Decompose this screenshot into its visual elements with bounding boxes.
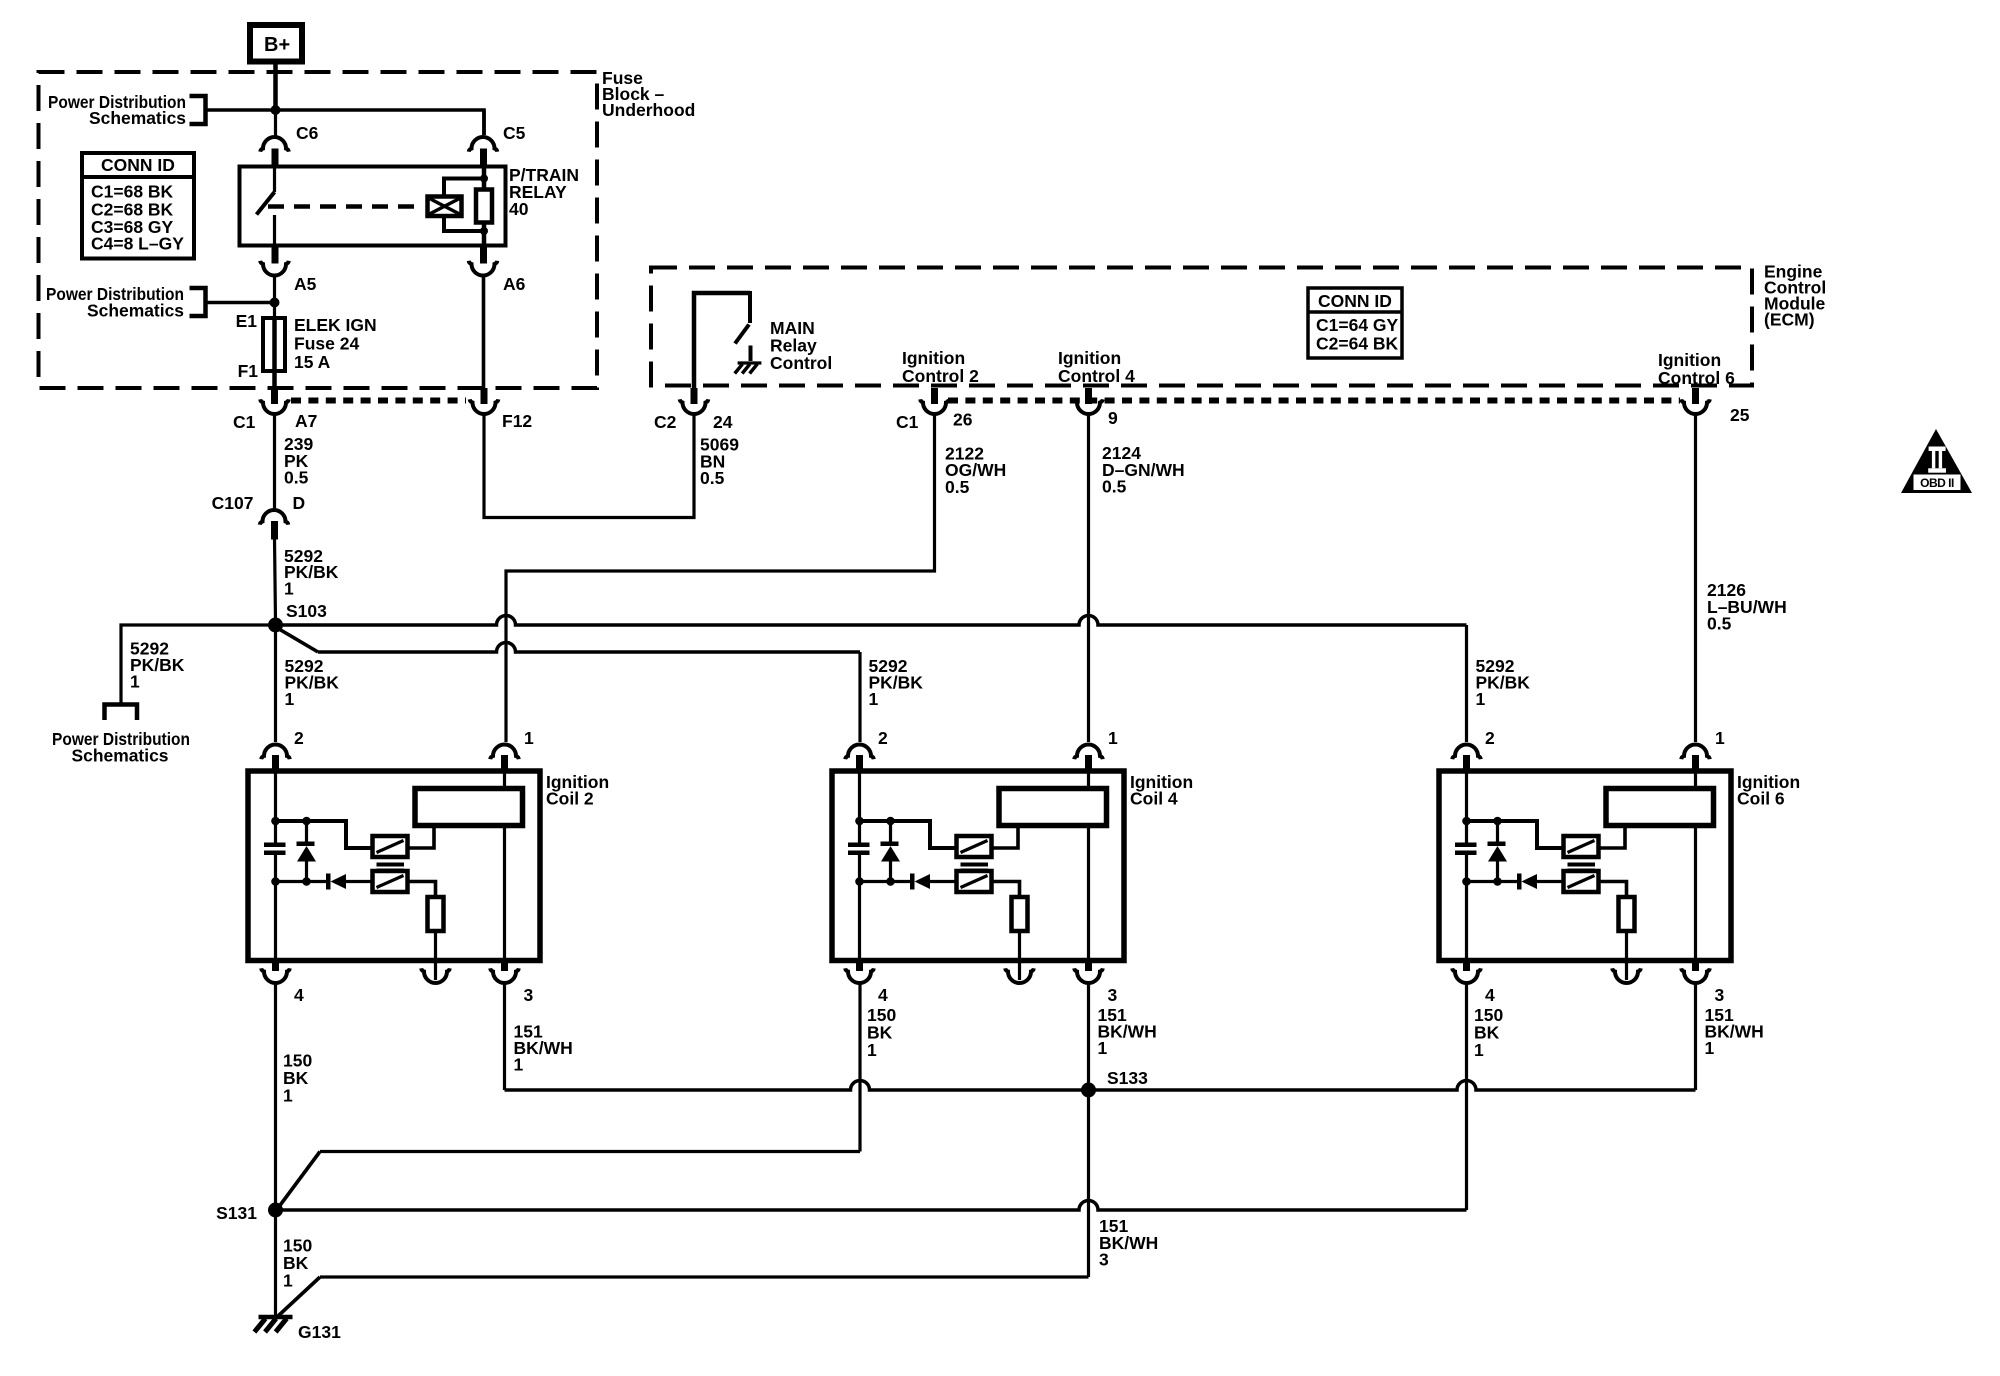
Engine Control Module (ECM) dashed boundary [651, 268, 1752, 386]
svg-text:C1: C1 [233, 412, 256, 432]
coil 4 transformer core [961, 863, 989, 867]
coil 2 internal feed to driver [276, 821, 373, 848]
svg-text:ELEK IGN: ELEK IGN [294, 315, 377, 335]
coil 2 ground wire inside (pin 4) [274, 882, 277, 961]
svg-text:9: 9 [1108, 408, 1118, 428]
svg-text:S131: S131 [216, 1203, 257, 1223]
svg-text:24: 24 [713, 412, 733, 432]
svg-text:1: 1 [284, 579, 294, 599]
svg-text:26: 26 [953, 410, 973, 430]
ECM internal driver: main relay control switch [694, 293, 750, 401]
splice S103 [268, 618, 283, 633]
ignition coil 6 connector pin 1 [1681, 745, 1710, 760]
wire fuse to connector C1 [272, 371, 277, 388]
wire S133 to ground junction (151 BK/WH 3) [1087, 1090, 1090, 1277]
coil 4 secondary to resistor wire [992, 882, 1020, 898]
svg-text:2: 2 [1485, 728, 1495, 748]
svg-text:1: 1 [524, 728, 534, 748]
relay coil (crossed box) [428, 197, 462, 217]
ECM bottom connector row dotted line [948, 398, 1680, 404]
coil 4 primary feed wire (pin 2) [858, 771, 861, 821]
coil 4 output to pin 3 wire [1087, 826, 1090, 961]
ignition coil 6 connector pin 4 [1463, 961, 1470, 972]
splice S133 [1081, 1083, 1096, 1098]
svg-text:C107: C107 [212, 493, 254, 513]
ignition coil 4 module outline [832, 771, 1124, 961]
ignition coil 4 connector pin 1 [1074, 745, 1103, 760]
coil 6 control input wire (pin 1) [1694, 771, 1697, 789]
coil 2 noise capacitor [274, 821, 277, 843]
wire B+ feed into fuse block [273, 62, 278, 113]
svg-text:S103: S103 [286, 601, 327, 621]
svg-text:F12: F12 [502, 411, 532, 431]
svg-text:Ignition: Ignition [1658, 350, 1721, 370]
svg-text:4: 4 [294, 985, 304, 1005]
svg-text:0.5: 0.5 [700, 468, 725, 488]
svg-text:C1: C1 [896, 412, 919, 432]
svg-text:Control: Control [770, 353, 832, 373]
ignition coil 2 connector pin 2 [261, 745, 290, 760]
off-page bracket Power Distribution Schematics (S103) [105, 705, 138, 721]
relay coil feed wire from C5 [482, 167, 487, 191]
coil 4 noise capacitor [858, 821, 861, 843]
svg-text:(ECM): (ECM) [1764, 310, 1815, 330]
coil 4 zener clamp diode [889, 821, 892, 842]
svg-text:Coil 6: Coil 6 [1737, 789, 1785, 809]
connector pin 25 (ignition control 6) [1692, 388, 1699, 404]
ignition coil 4 connector pin 2 [845, 745, 874, 760]
wire 2122 OG/WH 0.5 from pin 26 to coil 2 pin 1 [506, 414, 935, 743]
coil 2 resistor to spark output wire [434, 931, 437, 980]
wire coil 2 pin 4 to S131 (150 BK) [274, 983, 277, 1210]
relay coil parallel loop (top) [444, 179, 484, 197]
coil 6 secondary winding [1564, 871, 1599, 892]
svg-text:C2=64 BK: C2=64 BK [1316, 334, 1399, 354]
relay switch contact from C6 [273, 167, 276, 193]
fuse 24 ELEK IGN 15A [263, 318, 285, 371]
svg-text:0.5: 0.5 [1102, 477, 1127, 497]
coil 6 secondary to resistor wire [1599, 882, 1627, 898]
battery positive voltage terminal B+ [250, 25, 302, 62]
svg-text:1: 1 [130, 671, 140, 691]
coil 2 output to pin 3 wire [503, 826, 506, 961]
svg-text:40: 40 [509, 199, 529, 219]
svg-text:Ignition: Ignition [1058, 348, 1121, 368]
svg-text:S133: S133 [1107, 1068, 1148, 1088]
svg-text:Schematics: Schematics [89, 108, 186, 128]
wire S103 down to ignition coil 2 pin 2 (5292 PK/BK) [274, 625, 277, 742]
svg-text:3: 3 [1108, 985, 1118, 1005]
svg-text:C1=64 GY: C1=64 GY [1316, 315, 1399, 335]
svg-text:C1=68 BK: C1=68 BK [91, 182, 174, 202]
coil 2 transformer core [377, 863, 405, 867]
ignition coil 6 connector pin 2 [1452, 745, 1481, 760]
coil 2 primary winding [373, 836, 408, 857]
svg-text:15 A: 15 A [294, 352, 331, 372]
relay control dashed link [268, 204, 423, 209]
svg-text:3: 3 [1099, 1250, 1109, 1270]
svg-text:1: 1 [1715, 728, 1725, 748]
fuse block CONN ID table [82, 153, 194, 259]
svg-text:1: 1 [514, 1055, 524, 1075]
coil 6 resistor to spark output wire [1625, 931, 1628, 980]
coil 4 primary winding [957, 836, 992, 857]
svg-text:A6: A6 [503, 274, 526, 294]
wire S131 to ground G131 (150 BK) [274, 1210, 277, 1317]
svg-text:Control 2: Control 2 [902, 366, 979, 386]
svg-text:1: 1 [1108, 728, 1118, 748]
coil 2 driver return diode [271, 877, 280, 886]
svg-text:0.5: 0.5 [1707, 614, 1732, 634]
coil 6 ground wire inside (pin 4) [1465, 882, 1468, 961]
coil 4 ground wire inside (pin 4) [858, 882, 861, 961]
ignition coil 2 connector pin 3 [501, 961, 508, 972]
wire S131 to coil 6 pin 4 (150 BK) [276, 1201, 1467, 1211]
svg-text:C4=8 L–GY: C4=8 L–GY [91, 234, 184, 254]
node: A5 / fuse junction [270, 298, 280, 308]
svg-text:1: 1 [285, 689, 295, 709]
ignition coil 4 connector pin 3 [1085, 961, 1092, 972]
ignition coil 6 module outline [1439, 771, 1731, 961]
coil 4 secondary resistor [1012, 897, 1028, 931]
svg-text:2: 2 [294, 728, 304, 748]
wire junction to relay contact C5 feed [276, 110, 485, 135]
Fuse Block - Underhood dashed boundary [39, 72, 598, 388]
coil 6 secondary resistor [1619, 897, 1635, 931]
node: B+ branch junction [271, 105, 281, 115]
svg-text:3: 3 [1715, 985, 1725, 1005]
wire 239 PK 0.5 from A7 to C107 [273, 414, 276, 511]
connector C6 (fuse block to relay) [274, 112, 277, 137]
connector A6 (relay coil return) [480, 246, 487, 264]
wire 2126 L-BU/WH 0.5 from pin 25 to coil 6 pin 1 [1694, 414, 1697, 743]
coil 6 zener clamp diode [1496, 821, 1499, 842]
connector C2 pin 24 (main relay control) [691, 388, 698, 404]
svg-text:CONN ID: CONN ID [101, 155, 175, 175]
fuse block bottom connector row C1 dotted line [291, 398, 466, 404]
coil 6 noise capacitor [1465, 821, 1468, 843]
coil 2 secondary resistor [428, 897, 444, 931]
svg-text:Underhood: Underhood [602, 100, 695, 120]
svg-text:C5: C5 [503, 123, 526, 143]
svg-text:Schematics: Schematics [87, 301, 184, 321]
coil 4 secondary winding [957, 871, 992, 892]
connector pin 9 (ignition control 4) [1085, 388, 1092, 404]
coil 4 internal feed to driver [860, 821, 957, 848]
off-page reference bracket to Power Distribution Schematics (fuse feed) [190, 288, 206, 316]
wire A6 to F12 [482, 275, 486, 388]
wire 5069 BN 0.5 from F12 to ECM pin 24 [484, 414, 694, 518]
off-page reference bracket to Power Distribution Schematics (battery feed) [190, 96, 206, 124]
svg-text:1: 1 [1474, 1040, 1484, 1060]
svg-text:3: 3 [524, 985, 534, 1005]
relay coil parallel loop (bottom) [444, 216, 484, 231]
svg-text:0.5: 0.5 [284, 468, 309, 488]
svg-text:1: 1 [283, 1271, 293, 1291]
ignition coil 6 connector pin 3 [1692, 961, 1699, 972]
ignition coil 4 connector pin 4 [856, 961, 863, 972]
coil 6 output to pin 3 wire [1694, 826, 1697, 961]
svg-text:CONN ID: CONN ID [1318, 291, 1392, 311]
wire S103 to off-page bracket (left) [121, 625, 276, 703]
svg-text:C2: C2 [654, 412, 677, 432]
svg-text:Fuse 24: Fuse 24 [294, 334, 359, 354]
coil 4 driver return diode [855, 877, 864, 886]
svg-text:Ignition: Ignition [902, 348, 965, 368]
svg-text:Schematics: Schematics [72, 746, 169, 766]
coil 4 output module (secondary block) [999, 789, 1107, 826]
svg-text:G131: G131 [298, 1322, 341, 1342]
svg-text:1: 1 [1098, 1038, 1108, 1058]
svg-text:OBD II: OBD II [1920, 476, 1954, 490]
svg-text:B+: B+ [264, 34, 290, 56]
P/TRAIN relay 40 outline [240, 167, 506, 246]
relay suppression resistor [476, 190, 492, 223]
connector C1 pin 26 (ignition control 2) [931, 388, 938, 404]
ignition coil 2 connector pin 4 [272, 961, 279, 972]
svg-text:2: 2 [878, 728, 888, 748]
ignition coil 4 spark plug output connector [1005, 968, 1034, 983]
coil 6 driver return diode [1462, 877, 1471, 886]
main relay control ground contact [749, 346, 753, 362]
connector A5 (relay output) [272, 246, 279, 264]
coil 2 secondary to resistor wire [408, 882, 436, 898]
coil 4 primary to output module wire [992, 826, 1019, 848]
coil 2 control input wire (pin 1) [503, 771, 506, 789]
coil 6 primary feed wire (pin 2) [1465, 771, 1468, 821]
svg-text:Coil 4: Coil 4 [1130, 789, 1178, 809]
svg-text:1: 1 [1476, 689, 1486, 709]
svg-text:A5: A5 [294, 274, 317, 294]
connector C107 pin D [260, 510, 289, 525]
coil 4 resistor to spark output wire [1018, 931, 1021, 980]
svg-text:A7: A7 [295, 411, 317, 431]
coil 6 internal feed to driver [1467, 821, 1564, 848]
wire S103 to ignition coil 4 pin 2 (5292 PK/BK) [279, 629, 318, 652]
ignition coil 2 module outline [248, 771, 540, 961]
coil 2 primary to output module wire [408, 826, 435, 848]
svg-text:1: 1 [1705, 1038, 1715, 1058]
wire S131 to coil 4 pin 4 (150 BK) [280, 1152, 321, 1207]
relay switch blade [257, 192, 275, 215]
coil 2 secondary winding [373, 871, 408, 892]
svg-text:4: 4 [878, 985, 888, 1005]
wire coil 4 pin 3 into S133 [1087, 983, 1090, 1090]
svg-text:F1: F1 [238, 361, 259, 381]
connector C5 (fuse block to relay) [482, 110, 486, 135]
svg-text:Coil 2: Coil 2 [546, 789, 594, 809]
svg-text:Control 4: Control 4 [1058, 366, 1135, 386]
coil 2 zener clamp diode [305, 821, 308, 842]
svg-text:0.5: 0.5 [945, 477, 970, 497]
connector C1 pin F12 [481, 388, 488, 404]
ignition coil 2 spark plug output connector [421, 968, 450, 983]
svg-text:C6: C6 [296, 123, 319, 143]
wire 5292 PK/BK 1 from C107 to S103 [275, 539, 276, 621]
ground G131 [259, 1315, 293, 1320]
coil 6 primary to output module wire [1599, 826, 1626, 848]
ECM CONN ID table [1308, 288, 1402, 358]
wire coil 2 pin 3 to S133 (151 BK/WH) [503, 983, 506, 1090]
ignition coil 6 spark plug output connector [1612, 968, 1641, 983]
OBD II compliance triangle marker [1901, 429, 1972, 493]
relay switch lower contact to A5 [273, 215, 276, 246]
coil 6 transformer core [1568, 863, 1596, 867]
svg-text:1: 1 [867, 1040, 877, 1060]
svg-text:1: 1 [283, 1086, 293, 1106]
svg-text:Control 6: Control 6 [1658, 368, 1735, 388]
svg-text:4: 4 [1485, 985, 1495, 1005]
coil 4 control input wire (pin 1) [1087, 771, 1090, 789]
main relay control switch blade [735, 325, 749, 344]
connector C1 pin A7 [271, 388, 278, 404]
coil 2 primary feed wire (pin 2) [274, 771, 277, 821]
svg-text:25: 25 [1730, 405, 1750, 425]
wire S133 to coil 6 pin 3 (151 BK/WH) [1089, 1081, 1696, 1091]
wire S103 to ignition coil 6 pin 2 (5292 PK/BK) [276, 616, 1467, 626]
splice S131 [268, 1203, 283, 1218]
coil 6 output module (secondary block) [1606, 789, 1714, 826]
ignition coil 2 connector pin 1 [490, 745, 519, 760]
svg-text:D: D [293, 493, 306, 513]
svg-text:1: 1 [869, 689, 879, 709]
wire 2124 D-GN/WH 0.5 from pin 9 to coil 4 pin 1 [1087, 414, 1090, 743]
svg-text:E1: E1 [236, 311, 258, 331]
ECM internal ground (main relay control) [738, 361, 762, 364]
coil 2 output module (secondary block) [415, 789, 523, 826]
coil 6 primary winding [1564, 836, 1599, 857]
